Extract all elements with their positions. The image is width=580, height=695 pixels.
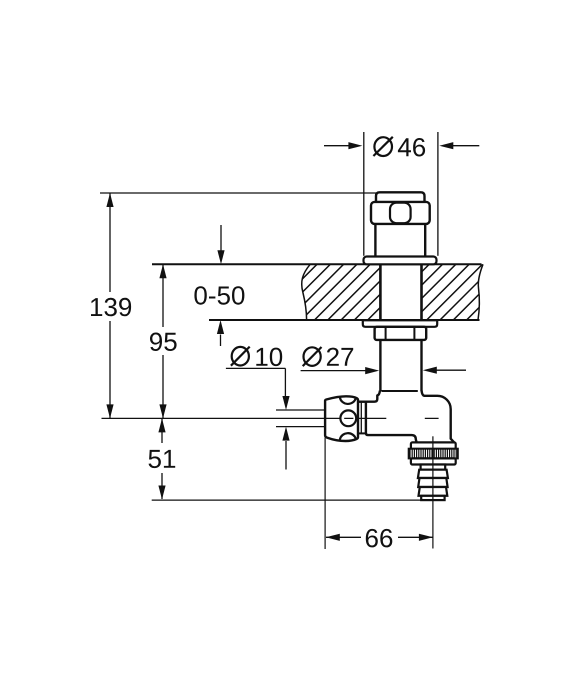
hose barb ridge 2 (418, 478, 447, 487)
dimension Ø46 right extension line (437, 132, 439, 256)
wall break edge right wavy line (478, 264, 483, 320)
dimension Ø10 value text (256, 348, 282, 367)
valve body elbow outline right (422, 391, 455, 443)
handle stem bottom line (358, 432, 366, 434)
dimension Ø46 dimension line left segment (324, 145, 350, 147)
dimension Ø27 left arrowhead pointing right (365, 367, 379, 374)
mounting hex nut facet lines (386, 327, 415, 339)
dimension 51 dimension line (161, 418, 163, 499)
dimension 51 value text (149, 450, 176, 468)
dimension 0-50 lower arrowhead (217, 320, 224, 334)
dimension Ø46 left arrowhead (348, 142, 362, 149)
wall bottom surface line (209, 319, 480, 321)
dimension 139 value text (91, 298, 131, 317)
hose union nut knurled band (409, 449, 458, 459)
valve top cap (376, 192, 425, 202)
dimension 139 top arrowhead (106, 193, 113, 207)
handle lower lobe arc (340, 433, 356, 440)
body shoulder step line (382, 390, 418, 392)
dimension Ø10 leader line (226, 368, 286, 397)
dimension 66 left arrowhead (326, 534, 340, 541)
handle stem inner step line (360, 403, 362, 434)
mounting hex nut below wall (375, 327, 427, 340)
hose union nut lower band (411, 458, 456, 464)
horizontal centerline of valve handle (102, 417, 439, 419)
wall break edge left wavy line (302, 264, 311, 320)
extension line at hose barb bottom for 51 (152, 499, 422, 501)
Ø27 shaft tube (380, 340, 421, 391)
knurling lines (410, 449, 456, 458)
dimension 95 top arrowhead (159, 264, 166, 278)
dimension Ø46 left extension line (363, 132, 365, 256)
dimension 0-50 lower arrow tail (220, 335, 222, 347)
dimension 0-50 value text (194, 286, 244, 305)
hose outlet centerline and 66 right extension line (432, 436, 434, 548)
dimension 139 bottom arrowhead (106, 404, 113, 418)
dimension Ø27 diameter symbol (303, 347, 322, 366)
hose barb ridge 1 (418, 470, 448, 478)
packing hex nut middle facet (390, 203, 411, 224)
dimension Ø46 right arrowhead (439, 142, 453, 149)
dimension Ø27 right arrowhead pointing left (423, 367, 437, 374)
dimension 66 value text (366, 529, 393, 548)
dimension 66 left extension line (324, 438, 326, 550)
dimension Ø10 lower arrowhead (282, 427, 289, 441)
valve body fillet to stem boss (358, 391, 380, 402)
handle knob outline (325, 396, 358, 441)
hose barb neck (421, 465, 446, 470)
handle center circle (340, 410, 356, 426)
dimension Ø46 diameter symbol (373, 137, 392, 156)
dimension 95 bottom arrowhead (159, 404, 166, 418)
dimension 0-50 upper arrowhead (217, 250, 224, 264)
wall hatching left of shaft (246, 256, 565, 322)
dimension Ø46 value text (398, 138, 425, 157)
handle upper lobe arc (340, 397, 356, 404)
packing hex nut (371, 202, 430, 224)
dimension Ø27 left leader line (301, 370, 366, 372)
lower washer plate (363, 320, 437, 327)
dimension Ø10 lower arrow tail (285, 441, 287, 470)
threaded shaft through wall (380, 264, 421, 320)
dimension 95 dimension line (162, 264, 164, 418)
dimension Ø10 upper arrowhead (282, 396, 289, 410)
dimension Ø10 diameter symbol (231, 347, 250, 366)
hose union nut upper band (411, 442, 456, 449)
hose barb ridge 3 (419, 487, 448, 496)
dimension 66 dimension line (326, 536, 433, 538)
wall top surface line (152, 263, 482, 265)
dimension 139 dimension line (109, 193, 111, 418)
dimension 66 right arrowhead (419, 534, 433, 541)
dimension Ø46 dimension line right segment (452, 145, 479, 147)
dimension 51 bottom arrowhead (158, 486, 165, 500)
hose barb end cap (421, 496, 444, 500)
dimension Ø27 value text (327, 348, 353, 366)
extension line from valve top for 139 (100, 192, 376, 194)
dimension 95 value text (150, 333, 177, 352)
dimension 51 top arrowhead (158, 418, 165, 432)
Ø10 inlet pipe lower line (276, 426, 325, 428)
handle stem top line (358, 401, 366, 403)
upper cylinder body (375, 224, 425, 257)
top flange escutcheon (364, 257, 437, 265)
dimension Ø27 right leader line (436, 369, 466, 371)
dimension 0-50 upper arrow line (220, 225, 222, 251)
wall hatching right of shaft (252, 256, 571, 322)
Ø10 inlet pipe upper line (276, 409, 325, 411)
valve body left edge and bottom outline (366, 402, 417, 443)
